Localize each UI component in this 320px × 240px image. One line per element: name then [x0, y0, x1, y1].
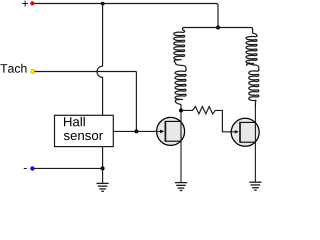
transistor Q1 channel wire (drain-source) [180, 111, 182, 183]
transistor Q2 channel wire (drain-source) [254, 105, 256, 182]
Tach label [0, 64, 26, 73]
wire Tach vertical drop [135, 72, 137, 132]
transistor Q2 source link [240, 141, 255, 143]
transistor Q2 gate lead inside body [230, 131, 236, 133]
Hall sensor box [55, 115, 114, 146]
ground G2 symbol [175, 183, 187, 191]
terminal + red dot [30, 1, 34, 5]
transistor Q1 source link [165, 140, 181, 142]
transistor Q2 drain link [240, 121, 255, 123]
junction node minus / hall ground [101, 166, 105, 170]
wire Hall sensor bottom [102, 147, 104, 169]
transistor Q2 gate bar [239, 122, 241, 143]
ground G3 symbol [249, 182, 261, 190]
inductor L1+L2 (left column, two windings in series) [174, 28, 218, 111]
transistor Q1 drain link [165, 120, 181, 122]
ground G1 symbol [97, 183, 109, 191]
wire minus rail [35, 167, 103, 169]
terminal - blue dot [30, 166, 34, 170]
transistor Q2 gate arrow [235, 130, 239, 134]
ground G1 stub [102, 168, 104, 183]
Hall sensor label line 1 [64, 117, 85, 127]
transistor Q1 gate arrow [160, 130, 164, 134]
junction node Tach / Hall output [134, 129, 138, 133]
wire top rail [32, 4, 218, 28]
wire Hall output to gate Q1 [113, 130, 160, 132]
junction node drain Q1 / resistor [179, 109, 183, 113]
terminal Tach yellow dot [31, 69, 35, 73]
terminal + label [22, 1, 28, 7]
resistor R1 [181, 107, 235, 132]
junction node top rail / coil rail [216, 26, 220, 30]
transistor Q1 gate lead inside body [155, 130, 161, 132]
wire Tach horizontal [35, 71, 137, 73]
wire Vcc drop to Hall sensor (with hop over Tach wire) [97, 4, 103, 116]
transistor Q1 body [157, 117, 185, 145]
junction node top rail / Hall drop [101, 2, 105, 6]
inductor L3+L4 (right column, two windings in series) [218, 28, 259, 108]
terminal - label [24, 167, 27, 170]
Hall sensor label line 2 [64, 133, 103, 140]
transistor Q1 gate bar [164, 121, 166, 142]
transistor Q2 body [231, 118, 259, 146]
